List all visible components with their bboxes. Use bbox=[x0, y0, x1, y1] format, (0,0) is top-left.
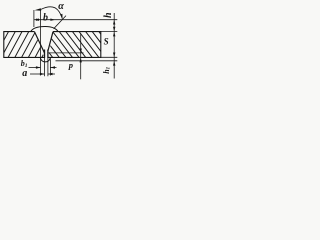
root bead bbox=[40, 57, 50, 62]
right plate hatch bbox=[32, 31, 120, 59]
dim: ext line b1 right bbox=[49, 58, 51, 75]
dim: right bevel extension line bbox=[54, 16, 66, 29]
svg-text:a: a bbox=[22, 68, 27, 79]
svg-text:h: h bbox=[103, 12, 114, 18]
dim: b left arrow bbox=[34, 19, 39, 21]
dim: plate top extension right bbox=[101, 31, 118, 33]
left plate outline bbox=[4, 32, 44, 58]
dim: ext line a right bbox=[47, 50, 49, 59]
dim: plate bottom extension right bbox=[101, 56, 118, 58]
dim: b1 line right bbox=[50, 67, 56, 69]
svg-text:b: b bbox=[43, 12, 48, 23]
dim: extension line left of b bbox=[33, 10, 35, 27]
right fusion line bbox=[48, 32, 53, 51]
dim: b1 line left bbox=[29, 67, 41, 69]
dim: a line left bbox=[30, 73, 45, 75]
p arrow up (to plate bottom) bbox=[80, 58, 82, 62]
left fusion line bbox=[35, 32, 45, 53]
dim: root bottom reference line bbox=[56, 60, 118, 62]
S bottom arrow bbox=[113, 53, 115, 58]
dim: b right arrow bbox=[50, 19, 55, 21]
alpha arc left arrow bbox=[34, 8, 41, 10]
dim: right vertical dimension line bbox=[113, 13, 115, 79]
weld cap dome bbox=[31, 26, 59, 31]
dim: long reference line (b line + h top ref) bbox=[34, 19, 117, 21]
a right arrow bbox=[48, 73, 53, 75]
h bottom arrow (down to plate top) bbox=[113, 27, 115, 32]
a left arrow bbox=[40, 73, 45, 75]
right plate outline bbox=[48, 32, 101, 58]
svg-text:S: S bbox=[104, 36, 109, 46]
svg-text:p: p bbox=[68, 60, 73, 70]
h1 lower arrow (up to root line) bbox=[113, 61, 115, 66]
dim: ext line a left bbox=[44, 50, 46, 59]
dim: a line right bbox=[48, 73, 55, 75]
S top arrow bbox=[113, 32, 115, 37]
b1 right arrow bbox=[50, 66, 55, 68]
h top arrow (up to b-line) bbox=[113, 20, 115, 25]
left plate hatch bbox=[0, 31, 56, 59]
dim: vertical reference line through weld (alpha/b/b1 right of groove-left) bbox=[40, 10, 42, 59]
p arrow down (to root-face line) bbox=[80, 49, 82, 53]
dim: alpha arc bbox=[41, 7, 62, 19]
alpha arc right arrow bbox=[60, 14, 62, 19]
dim: b right arrow at groove-left ref bbox=[36, 19, 40, 21]
dim: p root-face reference line bbox=[49, 52, 84, 54]
svg-text:α: α bbox=[58, 1, 64, 12]
dim: p vertical line bbox=[80, 34, 82, 80]
dim: ext line b1 left bbox=[40, 58, 42, 75]
b1 left arrow bbox=[36, 66, 41, 68]
